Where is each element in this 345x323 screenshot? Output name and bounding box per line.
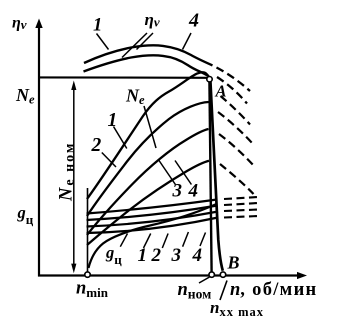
eta_v upper dashed continuation <box>217 68 251 92</box>
svg-text:n, об/мин: n, об/мин <box>230 280 318 300</box>
svg-text:ηv: ηv <box>12 15 27 33</box>
point A circle <box>207 77 212 82</box>
svg-text:Ne: Ne <box>125 86 145 108</box>
svg-text:1: 1 <box>108 110 118 131</box>
point B circle <box>220 272 225 277</box>
leader from 2 <box>102 153 116 168</box>
g_c line 4 dashed continuation <box>224 216 258 218</box>
Ne curve 2 <box>87 102 209 216</box>
svg-text:2: 2 <box>151 245 162 266</box>
g_c line 3 dashed continuation <box>224 210 258 212</box>
svg-text:1: 1 <box>138 245 148 266</box>
Ne horizontal line <box>39 76 207 79</box>
leader from 4 <box>175 161 191 185</box>
g_c line 2 dashed continuation <box>224 203 258 205</box>
dimension arrow Ne nom <box>71 81 76 274</box>
leader from Ne label <box>144 106 156 148</box>
g_c line 3 <box>87 212 219 227</box>
leader from 4 <box>183 33 192 50</box>
svg-text:4: 4 <box>188 10 199 32</box>
Ne curve 3 dashed continuation <box>219 134 254 166</box>
svg-text:nmin: nmin <box>76 279 109 301</box>
leader from 4 <box>200 233 206 247</box>
leader eta_v to upper curve <box>137 33 154 50</box>
svg-text:3: 3 <box>172 181 183 202</box>
g_c line 4 <box>87 218 219 234</box>
svg-text:A: A <box>215 82 227 101</box>
governor branch A-B <box>210 81 222 271</box>
leader from 3 <box>183 232 189 247</box>
Ne curve 1 <box>87 72 210 199</box>
point n_min circle <box>85 272 90 277</box>
leader from g_c <box>120 234 127 247</box>
svg-text:3: 3 <box>171 245 182 266</box>
Ne curve 4 dashed continuation <box>220 164 254 194</box>
Ne curve 3 <box>87 129 209 235</box>
Ne curve 1 dashed continuation <box>221 96 251 125</box>
point n_nom circle <box>209 272 214 277</box>
svg-text:ηv: ηv <box>145 10 160 30</box>
svg-text:Nе ном: Nе ном <box>57 142 78 202</box>
Ne curve 2 dashed continuation <box>218 112 253 144</box>
svg-text:2: 2 <box>91 135 102 156</box>
leader n_nom to circle <box>199 277 210 283</box>
svg-text:4: 4 <box>192 245 203 266</box>
leader from 1 <box>114 127 127 149</box>
svg-text:gц: gц <box>105 243 122 267</box>
svg-text:Ne: Ne <box>15 85 35 107</box>
svg-text:nхх max: nхх max <box>210 298 264 319</box>
g_c line 2 <box>87 206 218 221</box>
leader eta_v to lower curve <box>122 33 147 58</box>
y-axis <box>35 19 42 277</box>
x-axis <box>38 272 307 279</box>
eta_v lower dashed continuation <box>217 77 247 104</box>
g_c line 1 <box>87 200 218 214</box>
vertical line at n_nom <box>209 80 211 272</box>
svg-text:B: B <box>227 253 240 273</box>
Ne curve 4 <box>87 161 209 245</box>
leader from 2 <box>162 234 168 249</box>
vertical line at n_min <box>87 188 89 272</box>
svg-text:gц: gц <box>17 203 34 227</box>
g_c line 1 dashed continuation <box>224 197 258 199</box>
svg-text:1: 1 <box>93 16 102 36</box>
eta_v lower curve <box>84 55 208 75</box>
leader from 1 <box>97 34 109 50</box>
leader slash n_xx to B <box>220 281 227 301</box>
leader from 1 <box>144 234 151 249</box>
svg-text:nном: nном <box>178 280 212 302</box>
svg-text:4: 4 <box>188 181 199 202</box>
eta_v upper curve <box>84 45 213 65</box>
g_c line 5 (steep, crosses bundle) <box>89 204 217 268</box>
leader from 3 <box>159 161 175 185</box>
